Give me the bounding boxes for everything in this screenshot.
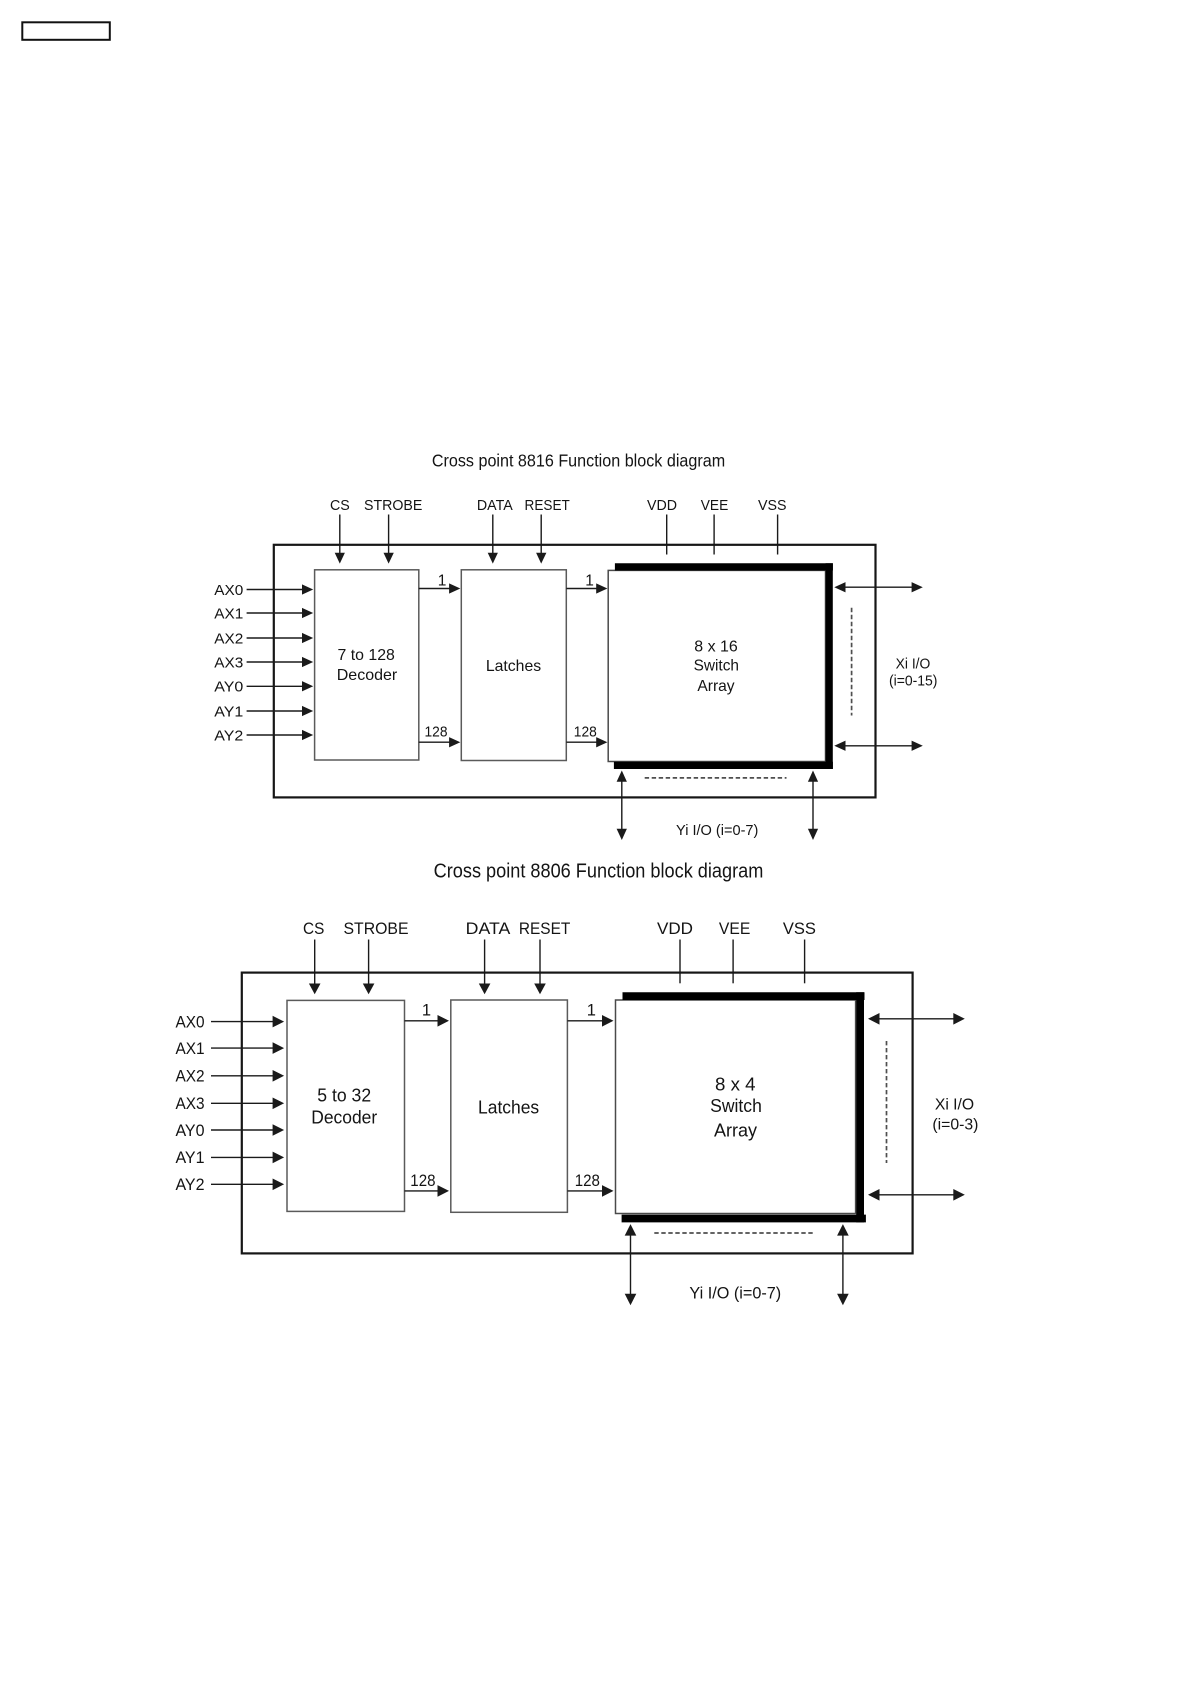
wire bus 128 latches-to-array (8816) (566, 724, 607, 748)
svg-text:8 x 16: 8 x 16 (694, 639, 738, 656)
wire arrow DATA into block (8806) (479, 940, 491, 995)
svg-text:AX0: AX0 (175, 1013, 204, 1031)
svg-text:Xi I/O: Xi I/O (896, 657, 931, 673)
input AY0 label+wire (8816) (214, 679, 313, 696)
wire VDD (8816) (666, 515, 668, 555)
wire VEE (8816) (713, 515, 715, 555)
svg-text:AX3: AX3 (175, 1095, 204, 1113)
input AY1 label+wire (8816) (214, 703, 313, 720)
thick right bar (8816 array) (826, 563, 833, 769)
label VDD (8806) (657, 919, 693, 938)
svg-text:Cross point 8806 Function bloc: Cross point 8806 Function block diagram (434, 861, 764, 883)
thick bottom bar (8816 array) (614, 762, 833, 769)
thick top bar (8806 array) (623, 992, 865, 1000)
svg-text:AY1: AY1 (214, 703, 243, 720)
dashed ellipsis vertical (8816 Xi side) (851, 608, 853, 716)
svg-text:Decoder: Decoder (311, 1108, 377, 1128)
svg-text:VEE: VEE (701, 497, 729, 514)
wire arrow STROBE into block (8816) (384, 515, 394, 564)
input AX2 label+wire (8806) (175, 1068, 284, 1086)
input AX1 label+wire (8816) (214, 605, 313, 622)
wire Yi I/O bidirectional arrow (8816) (808, 771, 818, 841)
input AY2 label+wire (8806) (175, 1176, 284, 1194)
wire VSS (8806) (804, 940, 806, 984)
svg-text:CS: CS (303, 919, 324, 938)
empty header box top-left (22, 22, 110, 40)
svg-text:Xi I/O: Xi I/O (935, 1097, 974, 1114)
wire VDD (8806) (679, 940, 681, 984)
wire Xi I/O bidirectional arrow (8806) (868, 1189, 965, 1201)
svg-text:128: 128 (575, 1172, 600, 1190)
label RESET (8816) (525, 497, 570, 514)
svg-text:128: 128 (425, 724, 448, 741)
label Yi I/O (i=0-7) (8806) (689, 1284, 781, 1303)
input AX3 label+wire (8806) (175, 1095, 284, 1113)
svg-text:VSS: VSS (758, 497, 787, 514)
svg-text:AX3: AX3 (214, 654, 243, 671)
svg-text:AY0: AY0 (214, 679, 243, 696)
svg-text:AX2: AX2 (175, 1068, 204, 1086)
label VSS (8816) (758, 497, 787, 514)
svg-text:AY2: AY2 (175, 1176, 204, 1194)
svg-text:Yi I/O (i=0-7): Yi I/O (i=0-7) (689, 1284, 781, 1303)
svg-text:128: 128 (410, 1172, 435, 1190)
label RESET (8806) (519, 919, 570, 938)
svg-text:1: 1 (585, 572, 594, 589)
svg-text:AY1: AY1 (175, 1149, 204, 1167)
label VDD (8816) (647, 497, 677, 514)
input AX0 label+wire (8806) (175, 1013, 284, 1031)
svg-text:1: 1 (587, 1001, 596, 1019)
wire Yi I/O bidirectional arrow (8816) (617, 771, 627, 841)
wire Yi I/O bidirectional arrow (8806) (837, 1224, 849, 1305)
wire VSS (8816) (777, 515, 779, 555)
svg-text:(i=0-3): (i=0-3) (932, 1117, 978, 1134)
wire bus 1 decoder-to-latches (8816) (419, 572, 461, 593)
thick bottom bar (8806 array) (622, 1215, 866, 1223)
wire bus 128 decoder-to-latches (8806) (405, 1172, 450, 1197)
wire arrow DATA into block (8816) (488, 515, 498, 564)
svg-text:AX2: AX2 (214, 630, 243, 647)
outer boundary box (8816) (274, 545, 876, 798)
dashed ellipsis vertical (8806 Xi side) (886, 1041, 888, 1163)
label Yi I/O (i=0-7) (8816) (676, 822, 758, 839)
wire arrow RESET into block (8806) (534, 940, 546, 995)
label VEE (8806) (719, 919, 750, 938)
decoder block 5 to 32 (8806) (287, 1000, 405, 1211)
wire arrow RESET into block (8816) (536, 515, 546, 564)
svg-text:Array: Array (697, 678, 734, 695)
svg-text:VEE: VEE (719, 919, 750, 938)
input AX1 label+wire (8806) (175, 1040, 284, 1058)
svg-text:1: 1 (422, 1001, 431, 1019)
svg-text:Yi I/O (i=0-7): Yi I/O (i=0-7) (676, 822, 758, 839)
svg-text:1: 1 (438, 572, 447, 589)
decoder block 7 to 128 (8816) (315, 570, 419, 760)
svg-text:5 to 32: 5 to 32 (317, 1086, 371, 1106)
svg-text:DATA: DATA (477, 497, 514, 514)
input AX3 label+wire (8816) (214, 654, 313, 671)
input AY2 label+wire (8816) (214, 727, 313, 744)
wire bus 1 decoder-to-latches (8806) (405, 1001, 450, 1026)
thick top bar (8816 array) (615, 563, 833, 570)
svg-text:AY0: AY0 (175, 1122, 204, 1140)
label VSS (8806) (783, 919, 816, 938)
outer boundary box (8806) (242, 973, 913, 1254)
svg-text:AX1: AX1 (175, 1040, 204, 1058)
label CS (8816) (330, 497, 350, 514)
switch array block 8x4 (8806) (616, 992, 866, 1222)
wire arrow STROBE into block (8806) (363, 940, 375, 995)
thick right bar (8806 array) (856, 992, 864, 1222)
label STROBE (8816) (364, 497, 422, 514)
svg-text:Switch: Switch (710, 1095, 762, 1116)
wire bus 1 latches-to-array (8806) (567, 1001, 613, 1026)
label STROBE (8806) (344, 919, 409, 938)
label DATA (8806) (466, 919, 511, 938)
input AY0 label+wire (8806) (175, 1122, 284, 1140)
svg-text:128: 128 (574, 724, 597, 741)
label CS (8806) (303, 919, 324, 938)
svg-text:CS: CS (330, 497, 350, 514)
label DATA (8816) (477, 497, 514, 514)
label VEE (8816) (701, 497, 729, 514)
svg-text:Array: Array (714, 1119, 758, 1140)
svg-text:AX1: AX1 (214, 605, 243, 622)
svg-text:RESET: RESET (525, 497, 570, 514)
svg-text:8 x 4: 8 x 4 (715, 1073, 756, 1094)
wire bus 128 decoder-to-latches (8816) (419, 724, 461, 748)
wire arrow CS into block (8806) (309, 940, 321, 995)
svg-text:(i=0-15): (i=0-15) (889, 673, 938, 689)
wire VEE (8806) (732, 940, 734, 984)
svg-text:VDD: VDD (647, 497, 677, 514)
input AX0 label+wire (8816) (214, 582, 313, 599)
label Xi I/O (i=0-15) (8816) (889, 657, 938, 690)
wire bus 128 latches-to-array (8806) (567, 1172, 613, 1197)
svg-text:Latches: Latches (486, 658, 541, 675)
input AX2 label+wire (8816) (214, 630, 313, 647)
svg-text:Latches: Latches (478, 1098, 539, 1118)
label Xi I/O (i=0-3) (8806) (932, 1097, 978, 1134)
svg-text:RESET: RESET (519, 919, 570, 938)
svg-text:AX0: AX0 (214, 582, 243, 599)
latches block (8806) (451, 1000, 568, 1212)
svg-text:VDD: VDD (657, 919, 693, 938)
title: Cross point 8806 Function block diagram (434, 861, 764, 883)
wire Xi I/O bidirectional arrow (8816) (834, 582, 923, 592)
switch array block 8x16 (8816) (608, 563, 833, 769)
svg-text:AY2: AY2 (214, 727, 243, 744)
dashed ellipsis horizontal (8806 Yi side) (654, 1232, 813, 1234)
wire Yi I/O bidirectional arrow (8806) (625, 1224, 637, 1305)
wire bus 1 latches-to-array (8816) (566, 572, 607, 593)
svg-text:STROBE: STROBE (364, 497, 422, 514)
svg-text:STROBE: STROBE (344, 919, 409, 938)
title: Cross point 8816 Function block diagram (432, 451, 725, 471)
svg-text:DATA: DATA (466, 919, 511, 938)
svg-text:VSS: VSS (783, 919, 816, 938)
wire Xi I/O bidirectional arrow (8816) (834, 741, 923, 751)
svg-text:Decoder: Decoder (337, 667, 398, 684)
svg-text:7 to 128: 7 to 128 (338, 647, 395, 664)
wire arrow CS into block (8816) (335, 515, 345, 564)
dashed ellipsis horizontal (8816 Yi side) (645, 777, 787, 779)
input AY1 label+wire (8806) (175, 1149, 284, 1167)
wire Xi I/O bidirectional arrow (8806) (868, 1013, 965, 1025)
latches block (8816) (461, 570, 566, 761)
svg-text:Switch: Switch (694, 657, 739, 674)
svg-text:Cross point 8816 Function bloc: Cross point 8816 Function block diagram (432, 451, 725, 471)
